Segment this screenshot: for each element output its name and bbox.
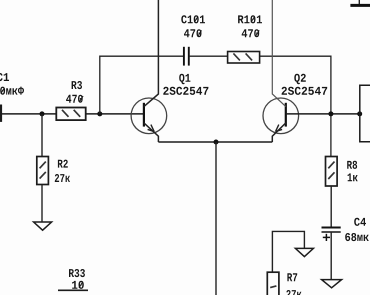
resistor R33 xyxy=(58,269,88,290)
wire emitter junction down xyxy=(215,142,217,295)
node A junction xyxy=(40,111,45,116)
junction R101/R8 on base rail xyxy=(328,111,333,116)
wire R7 top to ground xyxy=(272,231,304,272)
wire node A down to R2 xyxy=(41,114,43,157)
transistor Q2 xyxy=(263,0,327,142)
wire node B up and right to C101 xyxy=(100,56,184,114)
resistor R7 xyxy=(267,272,301,300)
junction at output box xyxy=(357,111,362,116)
power rail top right xyxy=(350,0,370,5)
resistor R3 xyxy=(56,81,85,120)
ground below R2 xyxy=(34,222,52,230)
resistor R2 xyxy=(37,157,70,185)
transistor Q1 xyxy=(131,0,208,142)
ground right of R7 xyxy=(295,248,313,256)
output connector box at right edge xyxy=(360,85,370,141)
wire Q2 base rail to output box xyxy=(286,113,360,115)
wire C4 to ground xyxy=(330,232,332,280)
capacitor C4 electrolytic xyxy=(322,218,369,241)
capacitor C101 xyxy=(181,15,205,65)
capacitor C1 xyxy=(0,73,24,122)
wire C101 to R101 xyxy=(189,55,228,57)
wire R2 to ground xyxy=(41,185,43,223)
emitter rail Q1 to Q2 xyxy=(158,141,272,143)
resistor R8 xyxy=(326,157,358,187)
wire R8 to C4 xyxy=(330,186,332,228)
junction emitter rail xyxy=(214,140,219,145)
wire R3 to Q1 base xyxy=(86,113,144,115)
ground below C4 xyxy=(322,280,342,288)
node B junction xyxy=(97,111,102,116)
resistor R101 xyxy=(228,15,262,63)
wire R101 right, down through Q2 base rail to R8 xyxy=(260,56,331,156)
wire C1 to R3 xyxy=(2,113,57,115)
